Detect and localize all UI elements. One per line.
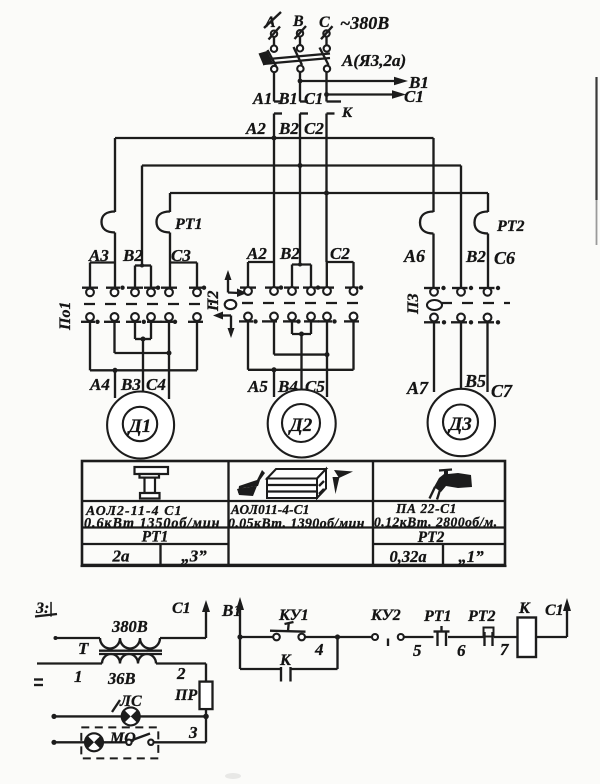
label 1 xyxy=(74,667,83,686)
icon faucet xyxy=(430,470,473,500)
svg-text:А7: А7 xyxy=(406,378,429,398)
plug P2 upper pins xyxy=(244,287,357,295)
svg-text:РТ2: РТ2 xyxy=(418,529,445,546)
label 0,32a xyxy=(389,547,426,566)
icon grinding spindle xyxy=(135,467,169,499)
label B2 plug1 xyxy=(122,246,143,265)
plug P3 upper dots xyxy=(441,286,500,290)
svg-text:В1: В1 xyxy=(278,89,298,108)
terminal C upper xyxy=(321,26,333,39)
svg-text:„3”: „3” xyxy=(181,547,207,566)
node fuse bottom xyxy=(203,714,209,720)
transformer T secondary winding xyxy=(102,654,156,664)
label A2 plug2 xyxy=(246,244,267,263)
node B3 xyxy=(141,337,146,342)
label KU1 xyxy=(278,607,309,624)
label C1 xyxy=(304,89,323,108)
transformer core xyxy=(99,651,162,654)
label 4 xyxy=(314,640,324,659)
plug P1 upper pins xyxy=(86,288,201,296)
wire P1 pin2 link xyxy=(115,321,170,353)
label C5 xyxy=(305,377,325,396)
svg-text:По1: По1 xyxy=(57,302,74,331)
svg-text:ЛС: ЛС xyxy=(119,693,142,710)
terminal B upper xyxy=(295,26,307,39)
svg-text:~380В: ~380В xyxy=(340,13,389,33)
terminal C lower xyxy=(324,37,330,52)
wire P2 pins 3-4 bridge xyxy=(292,320,311,334)
bus phase B xyxy=(142,164,461,166)
plug P3 zero mark xyxy=(427,300,442,310)
bus phase C xyxy=(170,192,488,194)
wire B4 to motor xyxy=(300,334,302,390)
wire RT2 to coil xyxy=(494,636,518,638)
table column line 2 xyxy=(372,461,374,565)
motor D3 xyxy=(428,389,495,456)
label KU2 xyxy=(370,607,401,624)
svg-text:К: К xyxy=(518,600,531,617)
label AOL2-11-4 S1 xyxy=(85,503,183,518)
label A3 xyxy=(88,246,109,265)
plug P1 lower pins xyxy=(86,313,201,321)
label B3 xyxy=(120,375,141,394)
wire B3 to motor xyxy=(142,339,144,392)
knife switch blade B xyxy=(294,47,303,65)
label T xyxy=(78,639,89,658)
plug P3 label rotated xyxy=(405,294,422,315)
wire phase A down xyxy=(273,72,275,102)
svg-text:36В: 36В xyxy=(107,669,136,688)
wire phase B down xyxy=(299,72,301,102)
label 0.12kW 2800rpm xyxy=(374,515,498,530)
svg-text:380В: 380В xyxy=(111,617,148,636)
svg-text:А2: А2 xyxy=(245,119,266,138)
switch hinge B xyxy=(297,66,303,72)
table cell split col1 xyxy=(159,544,161,565)
button KU2 xyxy=(372,634,404,646)
table row line under type text xyxy=(82,526,505,528)
wire P2 pin1-pin6 link xyxy=(248,320,354,369)
wire P1 pin1-pin6 link xyxy=(90,321,197,370)
plug P3 upper pins xyxy=(430,288,491,296)
icon hand tool left xyxy=(237,470,265,496)
icon hand tool right xyxy=(333,470,354,494)
label 3 xyxy=(188,723,198,742)
wire B1 up arrow xyxy=(236,597,244,637)
plug P2 lower dots xyxy=(253,319,336,323)
svg-text:С7: С7 xyxy=(491,381,513,401)
thermal contact RT2 xyxy=(484,628,494,647)
lamp LS xyxy=(122,707,140,725)
contactor K pole C upper xyxy=(327,100,342,102)
table column line 1 xyxy=(227,461,229,565)
wire feeder C right xyxy=(487,193,489,212)
svg-text:А(Я3,2а): А(Я3,2а) xyxy=(341,51,406,70)
table row line under RT2 xyxy=(373,543,505,545)
wire feeder A left xyxy=(114,138,116,212)
plug P2 zero mark xyxy=(225,300,237,309)
label C7 xyxy=(491,381,513,401)
label A5 xyxy=(247,377,268,396)
plug P1 lower ticks xyxy=(81,321,203,323)
icon whetstone box xyxy=(267,469,326,498)
label RT1 xyxy=(174,216,203,233)
knife switch blade A xyxy=(268,50,277,66)
wire phase C down xyxy=(325,72,327,102)
svg-text:П3: П3 xyxy=(405,294,422,315)
switch hinge C xyxy=(324,66,330,72)
label C6 xyxy=(494,248,515,268)
plug P3 lower pins xyxy=(430,314,491,322)
label 2 xyxy=(176,664,186,683)
svg-text:РТ1: РТ1 xyxy=(423,608,452,625)
wire feeder B left xyxy=(141,166,143,266)
label fuse 3 xyxy=(181,547,207,566)
table row line under icons xyxy=(82,500,505,502)
svg-text:Д1: Д1 xyxy=(127,416,151,437)
plug P1 upper ticks xyxy=(82,287,202,289)
label B2 plug2 xyxy=(279,244,300,263)
node A4 xyxy=(113,368,118,373)
svg-text:4: 4 xyxy=(314,640,324,659)
wire split A2 xyxy=(248,262,274,287)
table row line under RT1 xyxy=(82,543,229,545)
svg-text:А2: А2 xyxy=(246,244,267,263)
lamp MO xyxy=(85,733,103,751)
plug P3 lower ticks xyxy=(424,321,494,323)
label K seal xyxy=(279,652,292,669)
wire P1 pins 3-4 bridge xyxy=(135,321,151,339)
wire LS row xyxy=(51,714,206,719)
node C5 xyxy=(325,352,330,357)
switch hinge A xyxy=(271,66,277,72)
svg-text:РТ2: РТ2 xyxy=(496,218,525,235)
wire secondary right xyxy=(156,662,206,664)
svg-text:К: К xyxy=(279,652,292,669)
svg-text:С: С xyxy=(319,14,330,31)
label 0.05kW 1390rpm xyxy=(228,516,365,531)
motor D1 xyxy=(107,392,174,459)
label AOL011-4-S1 xyxy=(230,502,310,517)
contactor K pole B upper xyxy=(300,100,308,102)
label B4 xyxy=(277,377,298,396)
label 0.6kW 1350rpm xyxy=(84,516,220,532)
wire after KU1 xyxy=(305,636,372,638)
label RT2 xyxy=(496,218,525,235)
node A5 xyxy=(272,367,277,372)
plug P1 label rotated xyxy=(57,302,74,331)
node seal branch xyxy=(335,634,340,639)
switch name A(Ya3,2a) xyxy=(341,51,406,70)
label RT2 table xyxy=(418,529,445,546)
plug P1 separation dashes xyxy=(84,303,212,305)
label K contactor xyxy=(341,105,353,121)
wire A5 to motor xyxy=(273,370,275,397)
svg-text:0.12кВт. 2800об/м.: 0.12кВт. 2800об/м. xyxy=(374,515,498,530)
svg-text:2а: 2а xyxy=(112,547,131,566)
wire between RT1 RT2 xyxy=(448,636,484,638)
wire feeder C right lower xyxy=(487,234,489,289)
node bus A / phase A xyxy=(272,136,277,141)
label K coil xyxy=(518,600,531,617)
svg-text:„1”: „1” xyxy=(458,547,484,566)
plug P3 lower dots xyxy=(442,320,500,324)
node B4 xyxy=(299,332,304,337)
thermal element RT1 phase C xyxy=(157,212,171,233)
wire after KU2 xyxy=(404,636,434,638)
svg-text:Д3: Д3 xyxy=(447,414,471,435)
phase label B xyxy=(292,13,304,30)
label A6 xyxy=(403,246,425,266)
svg-text:А6: А6 xyxy=(403,246,425,266)
table cell split col3 xyxy=(442,544,444,565)
svg-text:В2: В2 xyxy=(122,246,143,265)
label C3 xyxy=(171,246,191,265)
node B1 branch xyxy=(237,634,242,639)
svg-text:Д2: Д2 xyxy=(288,415,313,436)
label A4 xyxy=(89,375,110,394)
svg-text:В2: В2 xyxy=(278,119,299,138)
wire arrow to B1 xyxy=(300,77,408,85)
svg-text:П2: П2 xyxy=(205,291,222,312)
wire seal branch xyxy=(240,637,338,669)
svg-text:РТ1: РТ1 xyxy=(174,216,203,233)
svg-text:КУ2: КУ2 xyxy=(370,607,401,624)
label fuse 1 xyxy=(458,547,484,566)
contactor K pole A upper xyxy=(274,100,282,102)
contactor K pole B lower xyxy=(300,114,308,167)
fuse PR xyxy=(200,682,213,710)
plug P2 insert arrow xyxy=(225,270,248,297)
switch linkage bar xyxy=(263,54,330,65)
wire split C2 xyxy=(327,194,354,287)
wire B5 to motor xyxy=(460,321,462,389)
label A7 xyxy=(406,378,429,398)
thermal contact RT1 xyxy=(434,626,450,646)
svg-text:0,32а: 0,32а xyxy=(389,547,426,566)
supply label ~380V xyxy=(340,13,389,33)
wire MO row right xyxy=(154,716,207,742)
wire arrow to C1 xyxy=(327,90,407,98)
svg-text:А4: А4 xyxy=(89,375,110,394)
label A1 xyxy=(252,89,272,108)
svg-text:А5: А5 xyxy=(247,377,268,396)
wire feeder A right lower xyxy=(432,234,434,289)
node C4 xyxy=(167,351,172,356)
wire feeder C left lower xyxy=(169,233,171,289)
thermal element RT2 phase C xyxy=(475,212,489,234)
label LS xyxy=(112,693,142,712)
svg-text:С1: С1 xyxy=(304,89,323,108)
button KU1 xyxy=(270,622,306,640)
svg-text:Т: Т xyxy=(78,639,89,658)
motor D2 xyxy=(268,390,336,458)
label RT1 table xyxy=(142,529,169,546)
svg-text:В: В xyxy=(292,13,304,30)
label 7 xyxy=(500,640,510,659)
wire feeder A middle xyxy=(273,138,275,262)
wire C5 to motor xyxy=(326,320,328,397)
label C2 xyxy=(304,119,324,138)
label B2 xyxy=(278,119,299,138)
wire split C3 xyxy=(169,263,197,289)
coil K xyxy=(518,618,537,658)
label 380V xyxy=(111,617,148,636)
phase label A xyxy=(264,12,281,31)
switch MO xyxy=(126,734,153,746)
label A2 xyxy=(245,119,266,138)
terminal A upper xyxy=(269,27,281,40)
contactor K pole C lower xyxy=(327,114,335,195)
label RT2 contact xyxy=(467,608,496,625)
wire split B2 xyxy=(135,264,151,289)
wire P2 pin2 link xyxy=(274,320,327,354)
contact K seal xyxy=(281,667,291,682)
wire feeder A right xyxy=(432,138,434,212)
wire C4 to motor xyxy=(168,321,170,399)
plug P2 remove arrow xyxy=(213,312,235,339)
wire feeder B right xyxy=(460,166,462,289)
label 36V xyxy=(107,669,136,688)
label B2 plug3 xyxy=(465,247,486,266)
wire feeder C left xyxy=(169,193,171,212)
svg-text:В5: В5 xyxy=(464,371,486,391)
svg-text:РТ1: РТ1 xyxy=(142,529,169,546)
plug P2 lower pins xyxy=(244,313,357,321)
svg-text:ПР: ПР xyxy=(174,687,197,704)
svg-text:С2: С2 xyxy=(304,119,324,138)
plug P2 label rotated xyxy=(205,291,222,312)
node bus B / phase B xyxy=(298,163,303,168)
svg-text:В2: В2 xyxy=(279,244,300,263)
transformer T primary winding xyxy=(100,638,160,649)
label 5 xyxy=(413,641,422,660)
wire C7 to motor xyxy=(486,321,488,392)
svg-text:А1: А1 xyxy=(252,89,272,108)
node bus C / phase C xyxy=(324,191,329,196)
switch handle xyxy=(259,51,273,66)
paper smudge bottom xyxy=(225,773,241,779)
label C4 xyxy=(146,375,166,394)
phase label C xyxy=(319,14,330,31)
svg-text:В2: В2 xyxy=(465,247,486,266)
svg-text:1: 1 xyxy=(74,667,83,686)
wire secondary left xyxy=(37,662,102,664)
wire A4 to motor xyxy=(114,370,116,398)
node C1 tap xyxy=(324,92,329,97)
svg-text:2: 2 xyxy=(176,664,186,683)
plug P2 upper dots xyxy=(279,285,363,289)
plug P2 separation dashes xyxy=(242,302,368,304)
wire MO row left xyxy=(51,740,126,745)
svg-text:С6: С6 xyxy=(494,248,515,268)
terminal A lower xyxy=(271,37,277,52)
plug P2 lower ticks xyxy=(239,320,359,322)
plug P2 upper ticks xyxy=(240,286,359,288)
thermal element RT1 phase A xyxy=(102,212,116,233)
svg-text:С1: С1 xyxy=(172,600,191,617)
plug P1 lower dots xyxy=(95,320,177,324)
label B1 arrow xyxy=(408,73,429,92)
label PR xyxy=(174,687,197,704)
svg-text:С2: С2 xyxy=(330,244,350,263)
knife switch blade C xyxy=(320,48,329,66)
wire A7 to motor xyxy=(433,321,435,392)
page smudge mark xyxy=(35,600,57,617)
label B5 xyxy=(464,371,486,391)
svg-text:КУ1: КУ1 xyxy=(278,607,309,624)
plug P3 upper ticks xyxy=(424,287,495,289)
plug P3 separation dashes xyxy=(441,302,510,304)
svg-text:С4: С4 xyxy=(146,375,166,394)
bus phase A xyxy=(115,137,434,139)
svg-text:6: 6 xyxy=(457,641,466,660)
wire split B2 xyxy=(292,166,311,288)
label RT1 contact xyxy=(423,608,452,625)
node B1 tap xyxy=(298,79,303,84)
svg-text:РТ2: РТ2 xyxy=(467,608,496,625)
equals mark xyxy=(34,680,43,686)
right edge scan line xyxy=(595,77,597,245)
wire coil to C1 xyxy=(536,598,571,637)
svg-text:К: К xyxy=(341,105,353,121)
label C1 arrow xyxy=(404,87,424,106)
label MO xyxy=(109,730,136,747)
label C1 left xyxy=(172,600,191,617)
label 2a xyxy=(112,547,131,566)
wire split A3 xyxy=(90,263,115,289)
wire feeder A left lower xyxy=(114,233,116,289)
svg-text:С1: С1 xyxy=(404,87,424,106)
wire main control run xyxy=(240,636,273,638)
label PA 22-S1 xyxy=(395,501,457,516)
label B1 bottom xyxy=(221,601,242,620)
label B1 xyxy=(278,89,298,108)
svg-text:5: 5 xyxy=(413,641,422,660)
MO dashed enclosure xyxy=(81,727,158,758)
table frame xyxy=(81,461,507,566)
label C2 plug2 xyxy=(330,244,350,263)
wire primary left xyxy=(54,636,101,640)
contactor K pole A lower xyxy=(274,114,282,140)
svg-text:С1: С1 xyxy=(545,602,564,619)
terminal B lower xyxy=(297,37,303,52)
fuse PR wire xyxy=(205,664,207,717)
svg-text:МО: МО xyxy=(109,730,136,747)
plug P1 upper dots xyxy=(120,286,206,290)
wire primary right xyxy=(160,637,206,639)
label C1 bottom xyxy=(545,602,564,619)
wire C1 up arrow left xyxy=(202,600,210,638)
svg-text:3: 3 xyxy=(188,723,198,742)
label 6 xyxy=(457,641,466,660)
svg-text:0.05кВт. 1390об/мин: 0.05кВт. 1390об/мин xyxy=(228,516,365,531)
thermal element RT2 phase A xyxy=(420,212,434,234)
